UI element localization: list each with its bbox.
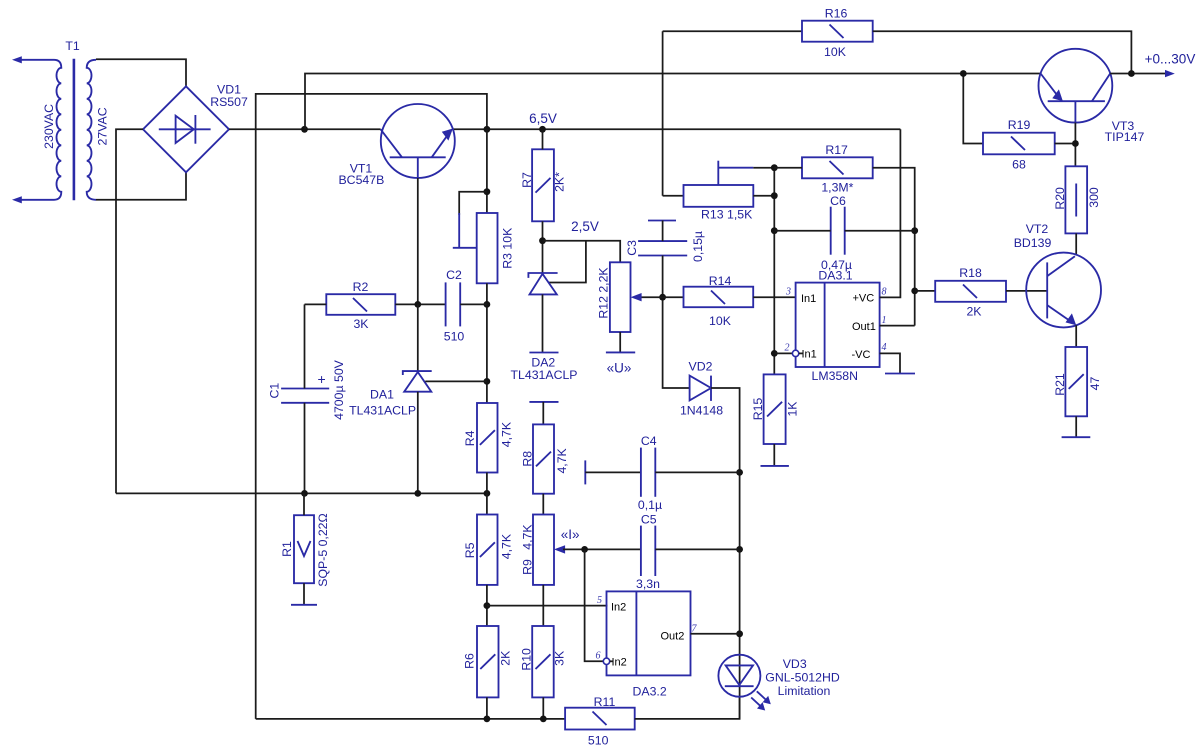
svg-text:C5: C5 — [641, 512, 657, 526]
wire pin5 line — [487, 605, 608, 607]
resistor R19 68 — [983, 118, 1055, 171]
wire C6 left lead — [774, 230, 830, 232]
wire R15 bottom lead — [773, 444, 775, 466]
svg-text:R4: R4 — [463, 430, 477, 446]
svg-text:4,7K: 4,7K — [555, 447, 569, 473]
svg-text:R7: R7 — [520, 172, 534, 188]
wire R19 branch from top rail — [963, 74, 983, 144]
node dots bottom rail — [484, 716, 491, 723]
wire R16 left lead — [663, 30, 802, 32]
wire pin8 +VC lead — [880, 129, 901, 297]
svg-text:TL431ACLP: TL431ACLP — [511, 368, 578, 382]
core — [73, 59, 76, 201]
op-amp DA3.1 LM358N — [792, 269, 879, 384]
svg-text:R12 2,2K: R12 2,2K — [597, 267, 611, 319]
wire VD2 cathode to C4 node — [711, 388, 740, 719]
svg-text:C4: C4 — [641, 434, 657, 448]
resistor R6 2K — [463, 626, 513, 697]
svg-text:R20: R20 — [1053, 187, 1067, 210]
capacitor C1 4700u 50V — [267, 359, 346, 420]
wire R7 top lead — [542, 129, 544, 149]
wire top rail y=73.5 — [305, 74, 1041, 130]
wire R3 wiper stub — [459, 192, 487, 215]
wire R8-R9 lead — [542, 494, 544, 515]
wire R6 bottom lead — [486, 697, 488, 719]
svg-text:R16: R16 — [825, 7, 848, 21]
svg-text:3: 3 — [785, 287, 791, 298]
node R5/R6 dot — [484, 602, 491, 609]
svg-text:2K*: 2K* — [553, 172, 567, 192]
node dots on rail — [484, 126, 491, 133]
svg-text:VD2: VD2 — [689, 359, 713, 373]
svg-text:4,7K: 4,7K — [499, 421, 513, 447]
svg-text:R17: R17 — [825, 143, 848, 157]
ground below DA2 — [529, 352, 558, 354]
wire R10 bottom lead — [542, 697, 544, 719]
svg-text:GNL-5012HD: GNL-5012HD — [765, 670, 840, 684]
svg-text:10K: 10K — [709, 314, 732, 328]
resistor R4 4,7K — [463, 403, 513, 473]
svg-text:10K: 10K — [824, 45, 847, 59]
node dots x=739.6 — [736, 469, 743, 476]
wire R17 right lead — [873, 168, 915, 326]
svg-text:1: 1 — [882, 315, 887, 326]
potentiometer R13 1,5K — [684, 161, 754, 222]
resistor R7 2K* — [520, 149, 567, 221]
svg-text:DA3.2: DA3.2 — [633, 685, 667, 699]
svg-text:510: 510 — [588, 734, 609, 748]
wire R13 wiper lead — [753, 167, 774, 169]
svg-text:+: + — [318, 371, 326, 387]
wire DA1 anode down — [417, 392, 419, 494]
wire R18 lead from feedback node — [915, 290, 936, 292]
wire bottom rail left — [256, 718, 565, 720]
wire R13 left lead — [663, 195, 684, 197]
svg-text:C3: C3 — [625, 240, 639, 256]
wire VT3 base down — [1074, 123, 1076, 167]
resistor R20 300 — [1053, 166, 1101, 233]
capacitor C4 0,1u — [638, 434, 662, 512]
svg-text:R8: R8 — [520, 451, 534, 467]
capacitor C3 0,15u — [625, 221, 705, 263]
wire VT3 collector to output — [1110, 73, 1169, 75]
wire VT2 emitter down — [1075, 325, 1077, 347]
bridge rectifier VD1 — [143, 83, 248, 173]
svg-text:68: 68 — [1012, 157, 1026, 171]
wire common line y=493.4 — [116, 492, 487, 494]
potentiometer R12 2,2K — [597, 262, 631, 332]
wire VT1 base down to R2 node — [417, 178, 419, 304]
wire R2 right lead to C2 — [395, 303, 445, 305]
svg-text:R18: R18 — [959, 266, 982, 280]
svg-text:R11: R11 — [594, 695, 616, 709]
svg-text:«I»: «I» — [561, 527, 580, 542]
svg-text:R3 10K: R3 10K — [501, 227, 515, 269]
svg-text:4: 4 — [882, 342, 887, 353]
resistor R17 1,3M* — [802, 143, 873, 195]
node DA1 ref dot — [484, 378, 491, 385]
node VT1 base / DA1 dot — [414, 301, 421, 308]
svg-text:In2: In2 — [612, 657, 627, 669]
resistor R15 1K — [751, 374, 800, 444]
LED VD3 GNL-5012HD — [718, 655, 839, 711]
wire DA1 ref lead — [425, 380, 487, 382]
resistor R8 4,7K — [520, 424, 569, 493]
wire C1 top lead — [304, 304, 306, 388]
wire C4 left lead — [585, 471, 641, 473]
svg-text:DA1: DA1 — [370, 388, 394, 402]
node C2 right dot — [484, 301, 491, 308]
secondary winding 27VAC — [87, 60, 96, 200]
svg-text:In1: In1 — [802, 349, 817, 361]
wire R7 bottom lead — [542, 221, 544, 273]
svg-text:R10: R10 — [520, 648, 534, 671]
svg-text:LM358N: LM358N — [812, 369, 858, 383]
wire R5 bottom lead — [486, 585, 488, 626]
potentiometer R9 4,7K — [521, 515, 554, 585]
node dots x=774.3 — [771, 164, 778, 171]
ground below R12 — [606, 351, 635, 353]
svg-text:R1: R1 — [280, 541, 294, 557]
wire bottom rail right — [635, 696, 740, 719]
primary arrow bottom — [12, 196, 22, 203]
wire bridge minus to left vertical — [116, 129, 143, 493]
svg-text:T1: T1 — [65, 39, 80, 53]
svg-text:R2: R2 — [353, 280, 369, 294]
primary winding 230VAC — [20, 60, 61, 200]
svg-text:DA3.1: DA3.1 — [818, 269, 852, 283]
wire C1 bottom lead — [304, 403, 306, 494]
wire pin7 Out2 lead — [691, 633, 740, 635]
node R3 stub dot — [484, 188, 491, 195]
svg-text:Out2: Out2 — [661, 631, 685, 643]
capacitor C2 510 — [444, 268, 465, 343]
node output dot — [1128, 70, 1135, 77]
node pin6 branch dot — [581, 546, 588, 553]
svg-text:R15: R15 — [751, 398, 765, 421]
svg-text:Out1: Out1 — [852, 321, 876, 333]
open stub left of C4 — [584, 460, 586, 484]
resistor R11 510 — [565, 695, 635, 748]
wire R1 top lead — [303, 493, 305, 515]
wire R1 bottom lead — [303, 583, 305, 605]
svg-text:2: 2 — [785, 343, 790, 354]
wire R3 bottom to R2 line — [486, 283, 488, 403]
svg-text:300: 300 — [1087, 187, 1101, 208]
svg-text:47: 47 — [1088, 377, 1102, 391]
svg-text:4,7K: 4,7K — [499, 533, 513, 559]
wire R12 wiper — [640, 296, 684, 298]
svg-text:230VAC: 230VAC — [42, 104, 56, 149]
output arrowhead — [1165, 70, 1175, 77]
capacitor C6 0,47u — [821, 194, 852, 272]
svg-text:2K: 2K — [966, 305, 982, 319]
svg-text:1N4148: 1N4148 — [680, 403, 723, 417]
svg-text:Limitation: Limitation — [778, 684, 831, 698]
wire R21 bottom lead — [1075, 416, 1077, 437]
ground below R1 — [291, 604, 317, 606]
wire C2 right lead — [460, 303, 487, 305]
wire R16 right lead to output — [873, 31, 1132, 73]
svg-text:6: 6 — [596, 651, 601, 662]
svg-text:27VAC: 27VAC — [96, 107, 110, 145]
R9 wiper arrowhead — [554, 545, 565, 553]
open stub above R8 — [529, 401, 558, 403]
primary arrow top — [12, 56, 22, 63]
wire C3 top stub — [662, 221, 664, 242]
wire R9-R10 lead — [542, 585, 544, 626]
wire secondary bottom to bridge — [96, 172, 186, 200]
svg-text:3K: 3K — [353, 317, 369, 331]
wire R8 top lead — [542, 402, 544, 425]
resistor R14 10K — [684, 274, 754, 328]
node 2,5V dot — [539, 237, 546, 244]
svg-text:0,1µ: 0,1µ — [638, 498, 662, 512]
R12 wiper arrowhead — [631, 293, 642, 301]
wire DA1 cathode from node — [417, 304, 419, 372]
wire pin1 Out1 lead — [880, 325, 915, 327]
resistor R1 SQP-5 0,22 — [280, 513, 330, 586]
svg-text:+VC: +VC — [853, 293, 875, 305]
wire pin4 -VC lead — [880, 353, 900, 373]
wire R17 left lead — [774, 167, 802, 169]
svg-text:1K: 1K — [786, 401, 800, 417]
diode VD2 1N4148 — [680, 359, 723, 417]
svg-text:RS507: RS507 — [210, 95, 248, 109]
svg-text:VD3: VD3 — [783, 657, 807, 671]
wire R19 right lead — [1055, 143, 1076, 145]
ground below R15 — [761, 465, 789, 467]
svg-text:C2: C2 — [446, 268, 462, 282]
svg-text:In2: In2 — [611, 602, 626, 614]
svg-text:-VC: -VC — [852, 349, 871, 361]
node R12 wiper dot — [659, 294, 666, 301]
wire DA2 ref branch — [548, 241, 586, 283]
svg-text:R19: R19 — [1008, 118, 1031, 132]
wire R2 left lead — [305, 303, 327, 305]
wire DA2 anode down — [542, 294, 544, 352]
wire R3 spine x=486.9 — [486, 129, 488, 213]
svg-text:TIP147: TIP147 — [1105, 130, 1145, 144]
node VT3 base dot — [1072, 140, 1079, 147]
transistor VT3 TIP147 — [1039, 49, 1145, 144]
ground below R21 — [1062, 436, 1091, 438]
svg-text:«U»: «U» — [607, 361, 632, 376]
shunt regulator DA2 TL431ACLP — [511, 273, 578, 382]
ground below -VC — [885, 373, 915, 375]
wire R18 right lead to VT2 base — [1006, 290, 1047, 292]
svg-text:8: 8 — [882, 287, 887, 298]
resistor R16 10K — [802, 7, 873, 59]
wire 2,5V line to R12 — [543, 241, 621, 263]
transistor VT1 BC547B — [338, 104, 454, 187]
shunt regulator DA1 TL431ACLP — [349, 371, 432, 418]
transformer T1 — [12, 39, 110, 203]
svg-text:3,3n: 3,3n — [636, 577, 660, 591]
svg-text:BC547B: BC547B — [338, 173, 384, 187]
wire R14 right lead to pin3 — [753, 296, 795, 298]
svg-text:VT2: VT2 — [1026, 222, 1049, 236]
resistor R21 47 — [1053, 347, 1102, 416]
wire R13 right lead — [753, 195, 774, 197]
svg-text:R13 1,5K: R13 1,5K — [701, 207, 753, 221]
node R19 dot — [960, 70, 967, 77]
wire secondary top to bridge — [96, 59, 186, 86]
svg-text:4,7K: 4,7K — [521, 524, 535, 550]
wire R20 bottom to VT2 collector — [1075, 233, 1077, 255]
svg-text:0,15µ: 0,15µ — [691, 231, 705, 262]
transistor VT2 BD139 — [1014, 222, 1101, 328]
svg-text:R9: R9 — [521, 559, 535, 575]
svg-text:3K: 3K — [553, 650, 567, 666]
wire bridge plus to rail — [229, 128, 381, 130]
capacitor C5 3,3n — [636, 512, 660, 591]
svg-text:R21: R21 — [1053, 373, 1067, 396]
svg-text:2,5V: 2,5V — [571, 219, 599, 234]
wire C4 right lead — [655, 471, 739, 473]
svg-text:2K: 2K — [499, 650, 513, 666]
wire C3 bottom to VD2 corner — [663, 256, 690, 389]
wire R12 bottom lead — [619, 332, 621, 352]
svg-text:+0...30V: +0...30V — [1145, 51, 1196, 66]
node dots on common line — [301, 490, 308, 497]
wire feedback vertical x=774.3 — [773, 168, 775, 375]
svg-text:R14: R14 — [709, 274, 732, 288]
resistor R3 10K (trimmer) — [453, 213, 515, 283]
wire R4 bottom lead — [486, 473, 488, 515]
resistor R10 3K — [520, 626, 567, 697]
svg-text:4700µ 50V: 4700µ 50V — [332, 359, 346, 420]
wire C6 right lead — [845, 230, 915, 232]
node dots x=914.7 — [911, 227, 918, 234]
svg-text:510: 510 — [444, 330, 465, 344]
svg-text:R6: R6 — [463, 653, 477, 669]
svg-text:In1: In1 — [801, 293, 816, 305]
resistor R5 4,7K — [463, 515, 513, 585]
wire 6.5V rail — [453, 128, 901, 130]
wire R9 wiper to C5 — [563, 548, 641, 550]
svg-text:C6: C6 — [830, 194, 846, 208]
svg-text:5: 5 — [597, 595, 602, 606]
wire mid rail jog y=93.9 — [256, 94, 487, 719]
wire pin2 lead — [774, 352, 792, 354]
op-amp DA3.2 — [603, 591, 690, 698]
node bridge plus dot — [301, 126, 308, 133]
svg-text:C1: C1 — [267, 383, 281, 399]
svg-text:BD139: BD139 — [1014, 236, 1052, 250]
svg-text:1,3M*: 1,3M* — [821, 181, 853, 195]
svg-text:SQP-5 0,22Ω: SQP-5 0,22Ω — [316, 513, 330, 586]
svg-text:TL431ACLP: TL431ACLP — [349, 404, 416, 418]
wire C5 right lead — [655, 548, 739, 550]
resistor R2 3K — [326, 280, 395, 331]
wire R16/R13 vertical x=662.6 — [662, 31, 664, 196]
svg-text:6,5V: 6,5V — [529, 111, 557, 126]
resistor R18 2K — [935, 266, 1006, 318]
svg-text:R5: R5 — [463, 542, 477, 558]
wire pin6 vertical — [585, 549, 603, 661]
